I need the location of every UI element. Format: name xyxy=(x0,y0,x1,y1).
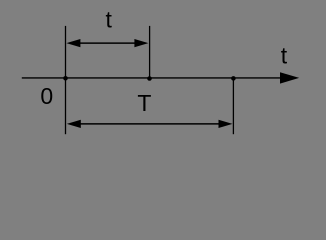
dimension arrow for t (shaft) xyxy=(78,42,136,44)
marker line at time T (x=233.4) xyxy=(232,78,234,134)
dimension T right arrowhead xyxy=(219,120,233,128)
dimension t right arrowhead xyxy=(134,39,148,47)
marker line at origin (x=65.5) xyxy=(65,26,67,134)
axis arrowhead xyxy=(280,72,299,83)
svg-text:T: T xyxy=(137,90,151,116)
time axis line xyxy=(22,77,282,79)
svg-text:0: 0 xyxy=(40,83,53,109)
svg-text:t: t xyxy=(281,43,288,69)
dimension t left arrowhead xyxy=(66,39,80,47)
dimension arrow for T (shaft) xyxy=(78,123,221,125)
marker line at time t (x=149.6) xyxy=(149,26,151,79)
svg-text:t: t xyxy=(106,7,113,33)
dimension T left arrowhead xyxy=(67,120,81,128)
node dot at t xyxy=(147,76,152,81)
node dot at T xyxy=(231,76,236,81)
node dot at origin xyxy=(63,76,68,81)
